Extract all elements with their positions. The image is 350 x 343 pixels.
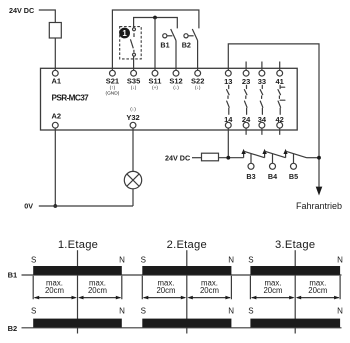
position switch B3	[241, 149, 264, 169]
svg-text:B1: B1	[8, 271, 18, 280]
wire fuse F2 to junction 14	[219, 157, 244, 159]
wire B5 to right rail	[307, 157, 320, 159]
svg-text:S12: S12	[169, 77, 182, 86]
terminal Y32	[130, 122, 136, 128]
svg-text:(↓): (↓)	[195, 85, 201, 91]
svg-text:Y32: Y32	[126, 113, 139, 122]
wire B2 to S22	[197, 41, 199, 71]
svg-text:S: S	[31, 256, 36, 265]
arrow to Fahrantrieb	[316, 187, 323, 196]
wire fuse F1 to A1	[54, 38, 56, 70]
label S12	[169, 77, 182, 91]
terminal 41	[277, 70, 283, 76]
label S22	[191, 77, 204, 91]
svg-text:S: S	[248, 306, 253, 315]
svg-text:(↑): (↑)	[110, 85, 116, 91]
wire stub 33	[261, 62, 263, 71]
dimension ticks and arrows etage2	[142, 276, 231, 300]
svg-text:(↓): (↓)	[173, 85, 179, 91]
magnet bar B1 etage2	[142, 266, 231, 275]
svg-text:A1: A1	[52, 77, 62, 86]
node centerline 1.Etage	[77, 250, 79, 333]
wire S21 net: S21 up, across top, down to B2	[112, 10, 198, 70]
svg-text:(+): (+)	[152, 85, 158, 91]
svg-text:S22: S22	[191, 77, 204, 86]
svg-text:41: 41	[276, 77, 284, 86]
magnet bar B2 etage3	[250, 319, 340, 328]
label S35	[127, 77, 140, 91]
svg-text:33: 33	[258, 77, 266, 86]
terminal 33	[259, 70, 265, 76]
relay contact 23-24	[244, 85, 247, 114]
svg-text:20cm: 20cm	[308, 286, 327, 295]
svg-text:24V DC: 24V DC	[165, 154, 190, 163]
wire 0V rail	[39, 205, 133, 207]
reset button 1 dashed enclosure	[120, 27, 142, 59]
wire reset line: box top to junction line to B1	[134, 18, 178, 29]
wire 14 down to 24V rail	[227, 128, 229, 158]
terminal A2	[52, 122, 58, 128]
node junction right rail	[317, 156, 321, 160]
wire stub 23	[245, 62, 247, 71]
svg-text:N: N	[228, 256, 234, 265]
svg-text:Fahrantrieb: Fahrantrieb	[296, 201, 342, 211]
svg-text:24V DC: 24V DC	[9, 6, 34, 15]
svg-text:S35: S35	[127, 77, 140, 86]
label max 20cm e2 left	[156, 279, 175, 296]
contact S35 reset (inside dashed box)	[130, 28, 135, 56]
wire B1 to S12	[175, 41, 177, 71]
wire 13 feed: up from 13, across, down right side	[228, 44, 319, 187]
wire A2 down to 0V	[54, 128, 56, 206]
svg-text:(GND): (GND)	[105, 91, 119, 97]
wire 24V DC to fuse F2	[192, 157, 202, 159]
magnet bar B1 etage1	[33, 266, 122, 275]
svg-text:B4: B4	[268, 172, 277, 181]
magnet bar B2 etage2	[142, 319, 231, 328]
svg-text:3.Etage: 3.Etage	[275, 239, 315, 251]
svg-text:PSR-MC37: PSR-MC37	[52, 93, 90, 102]
terminal 34	[259, 122, 265, 128]
svg-text:20cm: 20cm	[45, 286, 64, 295]
relay box U1 PSR-MC37	[41, 68, 298, 130]
fuse F1	[49, 23, 61, 39]
sensor contact B2	[184, 29, 198, 41]
svg-text:B5: B5	[289, 172, 298, 181]
position switch B4	[262, 149, 285, 169]
svg-text:S21: S21	[106, 77, 119, 86]
svg-text:(↓): (↓)	[130, 107, 136, 113]
dimension ticks and arrows etage1	[33, 276, 122, 300]
svg-text:S: S	[31, 306, 36, 315]
wire stub 42	[279, 128, 281, 135]
label max 20cm e3 right	[308, 279, 327, 296]
label Y32	[126, 107, 139, 122]
label S21	[105, 77, 119, 97]
terminal S35	[131, 70, 137, 76]
lamp H1	[124, 171, 141, 188]
node centerline 3.Etage	[294, 250, 296, 333]
svg-text:A2: A2	[52, 112, 62, 121]
terminal A1	[52, 70, 58, 76]
svg-text:N: N	[228, 306, 234, 315]
svg-text:N: N	[119, 306, 125, 315]
svg-text:20cm: 20cm	[156, 286, 175, 295]
svg-text:N: N	[337, 306, 343, 315]
label max 20cm e2 right	[200, 279, 219, 296]
svg-text:B2: B2	[8, 324, 18, 333]
svg-text:S: S	[141, 256, 146, 265]
terminal 14	[225, 122, 231, 128]
magnet bar B1 etage3	[250, 266, 340, 275]
wire Y32 to lamp	[132, 128, 134, 171]
relay contact 41-42 normally closed	[278, 85, 285, 114]
label max 20cm e1 right	[88, 279, 107, 296]
svg-text:2.Etage: 2.Etage	[167, 239, 207, 251]
marker circle 1	[119, 28, 130, 39]
node centerline 2.Etage	[186, 250, 188, 333]
terminal 13	[225, 70, 231, 76]
relay contact 13-14	[227, 85, 230, 114]
wire stub 34	[261, 128, 263, 135]
svg-text:B2: B2	[182, 40, 191, 49]
dimension ticks and arrows etage3	[250, 276, 340, 300]
svg-text:(↓): (↓)	[131, 85, 137, 91]
wire B2 track line	[22, 327, 342, 329]
node junction 0V	[53, 204, 57, 208]
wire B1 track line	[22, 274, 342, 276]
svg-text:20cm: 20cm	[200, 286, 219, 295]
position switch B5	[283, 149, 306, 169]
terminal 42	[277, 122, 283, 128]
wire lamp to 0V	[132, 189, 134, 206]
wire junction to S11	[154, 18, 156, 71]
node junction S11	[153, 16, 157, 20]
svg-text:N: N	[119, 256, 125, 265]
terminal S22	[195, 70, 201, 76]
svg-text:1: 1	[122, 29, 127, 38]
svg-text:0V: 0V	[24, 201, 33, 210]
relay contact 33-34	[260, 85, 263, 114]
node junction 14 rail	[226, 156, 230, 160]
fuse F2	[202, 153, 219, 161]
magnet bar B2 etage1	[33, 319, 122, 328]
sensor contact B1	[163, 29, 176, 41]
wire stub 24	[245, 128, 247, 135]
terminal S12	[173, 70, 179, 76]
svg-text:1.Etage: 1.Etage	[58, 239, 98, 251]
svg-text:S: S	[248, 256, 253, 265]
label max 20cm e3 left	[263, 279, 282, 296]
label S11	[149, 77, 162, 91]
svg-text:23: 23	[242, 77, 250, 86]
svg-text:S: S	[141, 306, 146, 315]
terminal S21	[110, 70, 116, 76]
svg-text:13: 13	[224, 77, 232, 86]
label max 20cm e1 left	[45, 279, 64, 296]
svg-text:20cm: 20cm	[263, 286, 282, 295]
svg-text:B1: B1	[160, 40, 169, 49]
wire stub 41	[279, 62, 281, 71]
svg-text:S11: S11	[149, 77, 162, 86]
svg-text:N: N	[337, 256, 343, 265]
svg-text:B3: B3	[246, 172, 255, 181]
svg-text:20cm: 20cm	[88, 286, 107, 295]
terminal S11	[152, 70, 158, 76]
terminal 23	[243, 70, 249, 76]
wire reset contact to S35	[133, 56, 135, 70]
terminal 24	[243, 122, 249, 128]
wire 24V DC to fuse F1	[39, 10, 56, 23]
